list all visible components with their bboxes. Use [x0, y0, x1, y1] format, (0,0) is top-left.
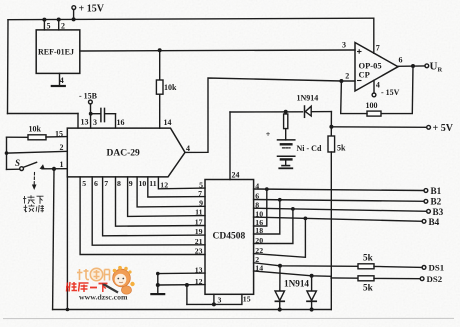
svg-text:B2: B2: [431, 197, 442, 207]
svg-text:7: 7: [104, 179, 108, 188]
svg-text:DS2: DS2: [427, 274, 443, 284]
svg-text:CD4508: CD4508: [213, 232, 246, 242]
svg-text:9: 9: [129, 179, 133, 188]
svg-text:11: 11: [149, 179, 156, 188]
svg-text:6: 6: [399, 56, 403, 65]
svg-text:REF-01EJ: REF-01EJ: [38, 47, 74, 56]
svg-text:5: 5: [47, 21, 51, 30]
svg-text:16: 16: [117, 118, 125, 127]
svg-text:6: 6: [94, 179, 98, 188]
svg-text:8: 8: [255, 200, 259, 209]
svg-text:6: 6: [255, 192, 259, 201]
svg-text:5k: 5k: [337, 144, 346, 153]
svg-text:9: 9: [199, 198, 203, 207]
svg-text:CP: CP: [359, 69, 370, 79]
svg-text:+ 5V: + 5V: [433, 123, 454, 134]
svg-text:2: 2: [60, 143, 64, 152]
svg-text:DS1: DS1: [429, 263, 445, 273]
svg-text:22: 22: [255, 246, 263, 255]
svg-text:2: 2: [61, 21, 65, 30]
svg-text:www.dzsc.com: www.dzsc.com: [79, 293, 128, 302]
svg-text:1N914: 1N914: [297, 93, 319, 102]
svg-text:3: 3: [342, 41, 346, 50]
svg-text:7: 7: [376, 44, 380, 53]
svg-text:10k: 10k: [164, 83, 177, 92]
svg-text:1: 1: [60, 160, 64, 169]
svg-text:2: 2: [345, 72, 349, 81]
svg-text:+ 15V: + 15V: [79, 4, 105, 15]
svg-text:19: 19: [195, 227, 203, 236]
svg-text:10: 10: [255, 209, 263, 218]
svg-text:5k: 5k: [363, 283, 374, 293]
svg-text:Ni - Cd: Ni - Cd: [297, 144, 322, 153]
svg-text:4: 4: [186, 144, 190, 153]
svg-text:15: 15: [55, 129, 63, 138]
svg-text:18: 18: [255, 226, 263, 235]
svg-text:7: 7: [198, 189, 202, 198]
svg-text:DAC-29: DAC-29: [107, 149, 140, 159]
svg-text:13: 13: [81, 118, 89, 127]
svg-text:10: 10: [139, 179, 147, 188]
svg-text:5k: 5k: [363, 253, 374, 263]
svg-text:5: 5: [82, 179, 86, 188]
svg-text:4: 4: [255, 181, 259, 190]
svg-text:8: 8: [117, 179, 121, 188]
svg-text:U: U: [430, 61, 438, 73]
svg-text:12: 12: [160, 180, 168, 189]
svg-text:3: 3: [218, 295, 222, 304]
svg-text:S: S: [15, 158, 20, 168]
svg-text:17: 17: [195, 218, 203, 227]
svg-text:B3: B3: [433, 207, 444, 217]
svg-text:12: 12: [195, 277, 203, 286]
svg-text:4: 4: [376, 81, 380, 90]
svg-text:13: 13: [195, 265, 203, 274]
svg-text:- 15V: - 15V: [381, 88, 400, 97]
svg-text:+: +: [266, 130, 271, 139]
svg-text:24: 24: [232, 170, 240, 179]
svg-text:R: R: [438, 67, 443, 74]
svg-text:14: 14: [255, 263, 263, 272]
svg-text:B1: B1: [431, 186, 442, 196]
svg-text:100: 100: [366, 101, 378, 110]
svg-text:3: 3: [93, 118, 97, 127]
svg-text:1N914: 1N914: [284, 279, 309, 289]
svg-text:21: 21: [195, 237, 203, 246]
svg-text:B4: B4: [429, 217, 440, 227]
svg-text:11: 11: [195, 208, 202, 217]
svg-text:23: 23: [195, 247, 203, 256]
svg-text:4: 4: [60, 76, 64, 85]
svg-text:15: 15: [243, 295, 251, 304]
svg-text:- 15B: - 15B: [79, 91, 98, 100]
svg-text:14: 14: [164, 118, 172, 127]
svg-text:10k: 10k: [29, 125, 42, 134]
svg-text:20: 20: [255, 236, 263, 245]
